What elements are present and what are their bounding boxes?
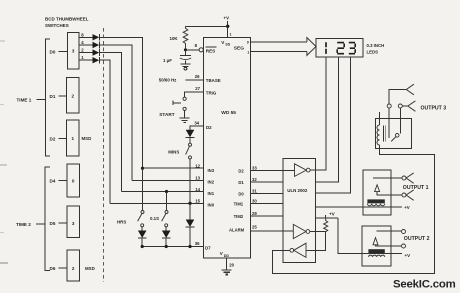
+V supply rail top [224, 16, 230, 27]
svg-text:+V: +V [224, 16, 230, 21]
svg-text:29: 29 [252, 211, 257, 216]
wire diode to D7 rail [165, 238, 167, 246]
thumbwheel switch D0 [50, 33, 80, 70]
output fork 1b [406, 190, 414, 200]
svg-text:D7: D7 [205, 246, 211, 251]
svg-text:SWITCHES: SWITCHES [45, 23, 69, 28]
relay K1 coil [367, 199, 384, 205]
seven-seg digit 1 [325, 42, 327, 54]
wire K3 right terminal to fork [402, 105, 408, 107]
wire IN3 tap down to HRS switch [142, 168, 144, 210]
svg-text:0: 0 [72, 178, 75, 183]
svg-text:D2: D2 [206, 125, 212, 130]
wire diode to D7 rail [141, 238, 143, 246]
junction on IN0 wire [188, 202, 191, 205]
wire bit8 to IN3 bus [99, 37, 142, 168]
wire +V rail right [316, 217, 338, 219]
junction on IN1 wire [165, 190, 168, 193]
inverter U2c (flipped) [290, 243, 306, 257]
svg-text:D2: D2 [50, 137, 56, 142]
wire R2 node down to U2c input [306, 232, 326, 251]
wire pin 32 to ULN [251, 181, 283, 183]
driver IC U2 ULN2002 box [283, 159, 316, 263]
wire U2b output to R2 node [310, 231, 326, 233]
svg-text:OUTPUT 3: OUTPUT 3 [421, 106, 447, 112]
ground under C1 [180, 64, 190, 70]
relay K1 armature [375, 185, 402, 195]
svg-text:1 µF: 1 µF [163, 58, 172, 63]
relay K2 armature [373, 238, 401, 246]
svg-text:1: 1 [230, 33, 232, 37]
svg-text:27: 27 [195, 86, 200, 91]
bus arrowhead into display [307, 38, 316, 56]
seven-seg digit 2 [337, 43, 344, 54]
capacitor C1 1uF [163, 50, 191, 64]
wire K2 NC contact to terminal [377, 230, 402, 232]
svg-text:D6: D6 [50, 266, 56, 271]
junction at pin 1 feed [226, 25, 229, 28]
diode CR4 (bit 1) [93, 57, 100, 64]
terminal circle K1 top [402, 176, 406, 180]
svg-text:TBASE: TBASE [206, 78, 221, 83]
ground under START [180, 118, 190, 123]
output fork 3b [408, 101, 416, 111]
wire 50/60Hz to TBASE pin 26 [186, 79, 204, 81]
wire node to RES bubble [186, 49, 200, 51]
scan speck left edge 3 [0, 164, 7, 166]
+V node label [326, 212, 336, 218]
svg-text:D5: D5 [50, 221, 56, 226]
svg-text:IN2: IN2 [208, 180, 215, 185]
junction dots on D7 rail [141, 245, 144, 248]
wire HRS switch to diode [141, 227, 143, 231]
bracket TIME 2 group [45, 167, 50, 271]
SEG bus wire lower [251, 50, 307, 52]
label: BCD THUMBWHEEL SWITCHES [45, 17, 89, 28]
svg-text:13: 13 [195, 176, 200, 181]
svg-text:20: 20 [229, 262, 234, 267]
svg-text:34: 34 [194, 121, 199, 126]
svg-text:START: START [159, 112, 174, 117]
wire IN3 into chip pin 12 [143, 167, 204, 169]
wire D0 bit8 stub [79, 36, 93, 38]
seven-seg digit 3 [349, 43, 355, 54]
svg-text:RES: RES [206, 48, 215, 53]
wire diode to MINS switch [189, 138, 191, 144]
diode CR5 (HRS) [138, 231, 147, 239]
wire bit4 to IN2 bus [99, 45, 132, 180]
svg-text:TIM1: TIM1 [234, 202, 244, 207]
wire START to ground [184, 111, 186, 118]
diode CR8 (MINS) [186, 130, 195, 138]
scan speck left edge 2 [0, 104, 4, 106]
relay K2 box [362, 226, 391, 266]
diode CR7 [186, 220, 195, 228]
wire pin 30 to ULN [251, 203, 283, 205]
relay K3 coil [377, 112, 385, 145]
D7 rail wire into chip pin 36 [142, 246, 203, 248]
wire pin 31 to ULN [251, 192, 283, 194]
diode CR1 (bit 8) [93, 34, 100, 41]
wire U2c output to relay K3 coil (long loop) [273, 145, 435, 273]
thumbwheel switch D2 (MSD) [50, 120, 92, 156]
wire +V rail down to relay K2 coil [338, 218, 402, 254]
wire U2a output up to display digit 3 [310, 57, 326, 170]
diode CR2 (bit 4) [93, 42, 100, 49]
svg-text:IN0: IN0 [208, 203, 215, 208]
svg-text:TIME 2: TIME 2 [16, 222, 31, 227]
svg-text:3: 3 [72, 221, 75, 226]
wire diode CR7 to D7 rail [189, 227, 191, 246]
inverter U2a [295, 164, 311, 177]
wire K1 NC contact to terminal [373, 177, 402, 179]
wire IN1 tap down to 0.1S switch [166, 192, 168, 211]
wire IN2 into chip pin 13 [132, 179, 204, 181]
svg-text:BCD THUMBWHEEL: BCD THUMBWHEEL [45, 17, 89, 22]
terminal circle K2 top [402, 230, 406, 234]
svg-text:SS: SS [225, 43, 230, 47]
junction resistor/cap/RES node [184, 48, 187, 51]
wire IN1 into chip pin 14 [122, 191, 204, 193]
svg-text:3: 3 [72, 49, 75, 54]
bit weight labels 8 4 2 1 [81, 32, 84, 60]
svg-text:D0: D0 [50, 50, 56, 55]
svg-text:LEDS: LEDS [367, 49, 379, 54]
relay K3 box [376, 119, 412, 149]
svg-text:ALARM: ALARM [229, 228, 245, 233]
svg-text:+V: +V [329, 212, 336, 217]
svg-text:31: 31 [252, 188, 257, 193]
inverter U2b [293, 224, 310, 238]
wire ULN channel out to display digit 1 [316, 57, 351, 193]
scan speck left edge 4 [0, 232, 4, 234]
svg-text:SEG: SEG [234, 46, 244, 52]
svg-text:+V: +V [404, 205, 410, 210]
thumbwheel switch D4 [50, 164, 80, 197]
wire IN0 junction down to diode CR7 [189, 203, 191, 219]
wire pin 25 (ALARM) to inverter input [251, 230, 294, 232]
terminal circle K3 left [387, 104, 391, 108]
svg-text:TRIG: TRIG [206, 90, 217, 95]
svg-text:HRS: HRS [117, 220, 126, 225]
dashed switch-bank boundary line [103, 28, 105, 282]
diode CR6 (0.1S) [162, 231, 171, 239]
chip label RES with overbar [206, 47, 217, 53]
svg-text:15: 15 [195, 199, 200, 204]
svg-text:9: 9 [247, 40, 249, 44]
svg-text:D4: D4 [50, 178, 56, 183]
svg-text:32: 32 [252, 177, 257, 182]
wire TRIG pin 27 to START switch [185, 92, 204, 97]
svg-text:10K: 10K [170, 36, 179, 41]
SEG bus wire upper [251, 41, 307, 43]
svg-text:MSD: MSD [85, 266, 95, 271]
wire D0 bit4 stub [79, 44, 93, 46]
wire ULN channel to relay K1 coil [316, 206, 403, 208]
svg-text:OUTPUT 1: OUTPUT 1 [403, 185, 429, 191]
relay K3 contact armature [389, 108, 400, 141]
output fork 1a [406, 173, 414, 183]
svg-text:SeekIC.com: SeekIC.com [393, 279, 456, 291]
thumbwheel switch D5 [50, 206, 80, 238]
scan speck left edge 5 [0, 262, 8, 264]
wire pin 34 (D2) to diode [190, 126, 204, 130]
terminal circle K1 bottom [402, 193, 406, 197]
wire pin 33 to driver input [251, 169, 295, 171]
svg-text:36: 36 [195, 241, 200, 246]
svg-text:D1: D1 [50, 94, 56, 99]
terminal circle K3 right [398, 104, 402, 108]
IC U1 WD55 outline [204, 38, 251, 259]
terminal circle K2 bottom [402, 244, 406, 248]
scan speck left edge 1 [0, 40, 5, 42]
svg-text:TIME 1: TIME 1 [17, 97, 32, 102]
svg-text:25: 25 [252, 225, 257, 230]
relay K1 box [363, 170, 391, 215]
switch HRS [117, 211, 144, 227]
svg-text:1: 1 [247, 50, 249, 54]
svg-text:IN3: IN3 [208, 168, 215, 173]
chip label VDD [220, 251, 230, 258]
wire K3 left terminal to fork [389, 90, 406, 105]
svg-text:WD 55: WD 55 [221, 110, 236, 116]
svg-text:TIM2: TIM2 [234, 214, 244, 219]
wire bit1 to IN0 bus [99, 60, 110, 203]
svg-text:+V: +V [405, 253, 411, 258]
switch 0.1S [150, 211, 168, 227]
wire IN0 into chip pin 15 [110, 202, 204, 204]
svg-text:2: 2 [72, 94, 75, 99]
RES inversion bubble (pin 8) [199, 48, 203, 52]
svg-text:2: 2 [72, 266, 75, 271]
svg-text:DD: DD [224, 254, 230, 258]
LED display module [316, 39, 384, 58]
thumbwheel switch D1 [50, 78, 80, 114]
switch MINS [168, 143, 191, 159]
svg-text:MINS: MINS [168, 150, 179, 155]
wire ULN channel out to display digit 2 [316, 57, 339, 182]
svg-text:33: 33 [252, 165, 257, 170]
svg-text:IN1: IN1 [208, 191, 215, 196]
diode CR3 (bit 2) [93, 49, 100, 56]
output fork 3a [406, 84, 414, 95]
svg-text:30: 30 [252, 199, 257, 204]
thumbwheel switch D6 (MSD) [50, 250, 95, 281]
relay K2 coil [368, 249, 384, 257]
svg-text:OUTPUT 2: OUTPUT 2 [404, 236, 430, 242]
svg-text:D0: D0 [238, 191, 244, 196]
chip label VSS [221, 40, 230, 47]
svg-text:MSD: MSD [82, 136, 92, 141]
wire pin 29 to ULN [251, 215, 283, 217]
ground under pin 20 [222, 270, 232, 275]
svg-text:ULN 2002: ULN 2002 [287, 188, 308, 193]
junction on IN3 wire [141, 167, 144, 170]
label TIME 1 [17, 97, 46, 102]
svg-text:D1: D1 [238, 180, 244, 185]
svg-text:1: 1 [72, 136, 75, 141]
wire bit2 to IN1 bus [99, 53, 121, 192]
svg-text:D2: D2 [238, 168, 244, 173]
svg-text:50/60 Hz: 50/60 Hz [159, 77, 177, 82]
resistor R1 10K [170, 26, 188, 48]
wire VDD pin 20 to ground [226, 258, 228, 270]
wire 0.1S switch to diode [165, 227, 167, 231]
resistor R2 pull-up [324, 218, 328, 232]
svg-text:26: 26 [195, 74, 200, 79]
bracket TIME 1 group [45, 39, 50, 156]
wire +V rail to resistor top [186, 25, 228, 27]
svg-text:14: 14 [195, 187, 200, 192]
svg-text:0.3 INCH: 0.3 INCH [367, 43, 385, 48]
wire +V to chip pin 1 [227, 26, 229, 37]
pushbutton START [159, 97, 186, 117]
wire MINS switch down to IN0 junction [189, 159, 191, 203]
label TIME 2 [16, 222, 45, 227]
wire D0 bit1 stub [79, 59, 93, 61]
svg-text:12: 12 [195, 164, 200, 169]
svg-text:0.1S: 0.1S [150, 216, 159, 221]
wire D0 bit2 stub [79, 52, 93, 54]
